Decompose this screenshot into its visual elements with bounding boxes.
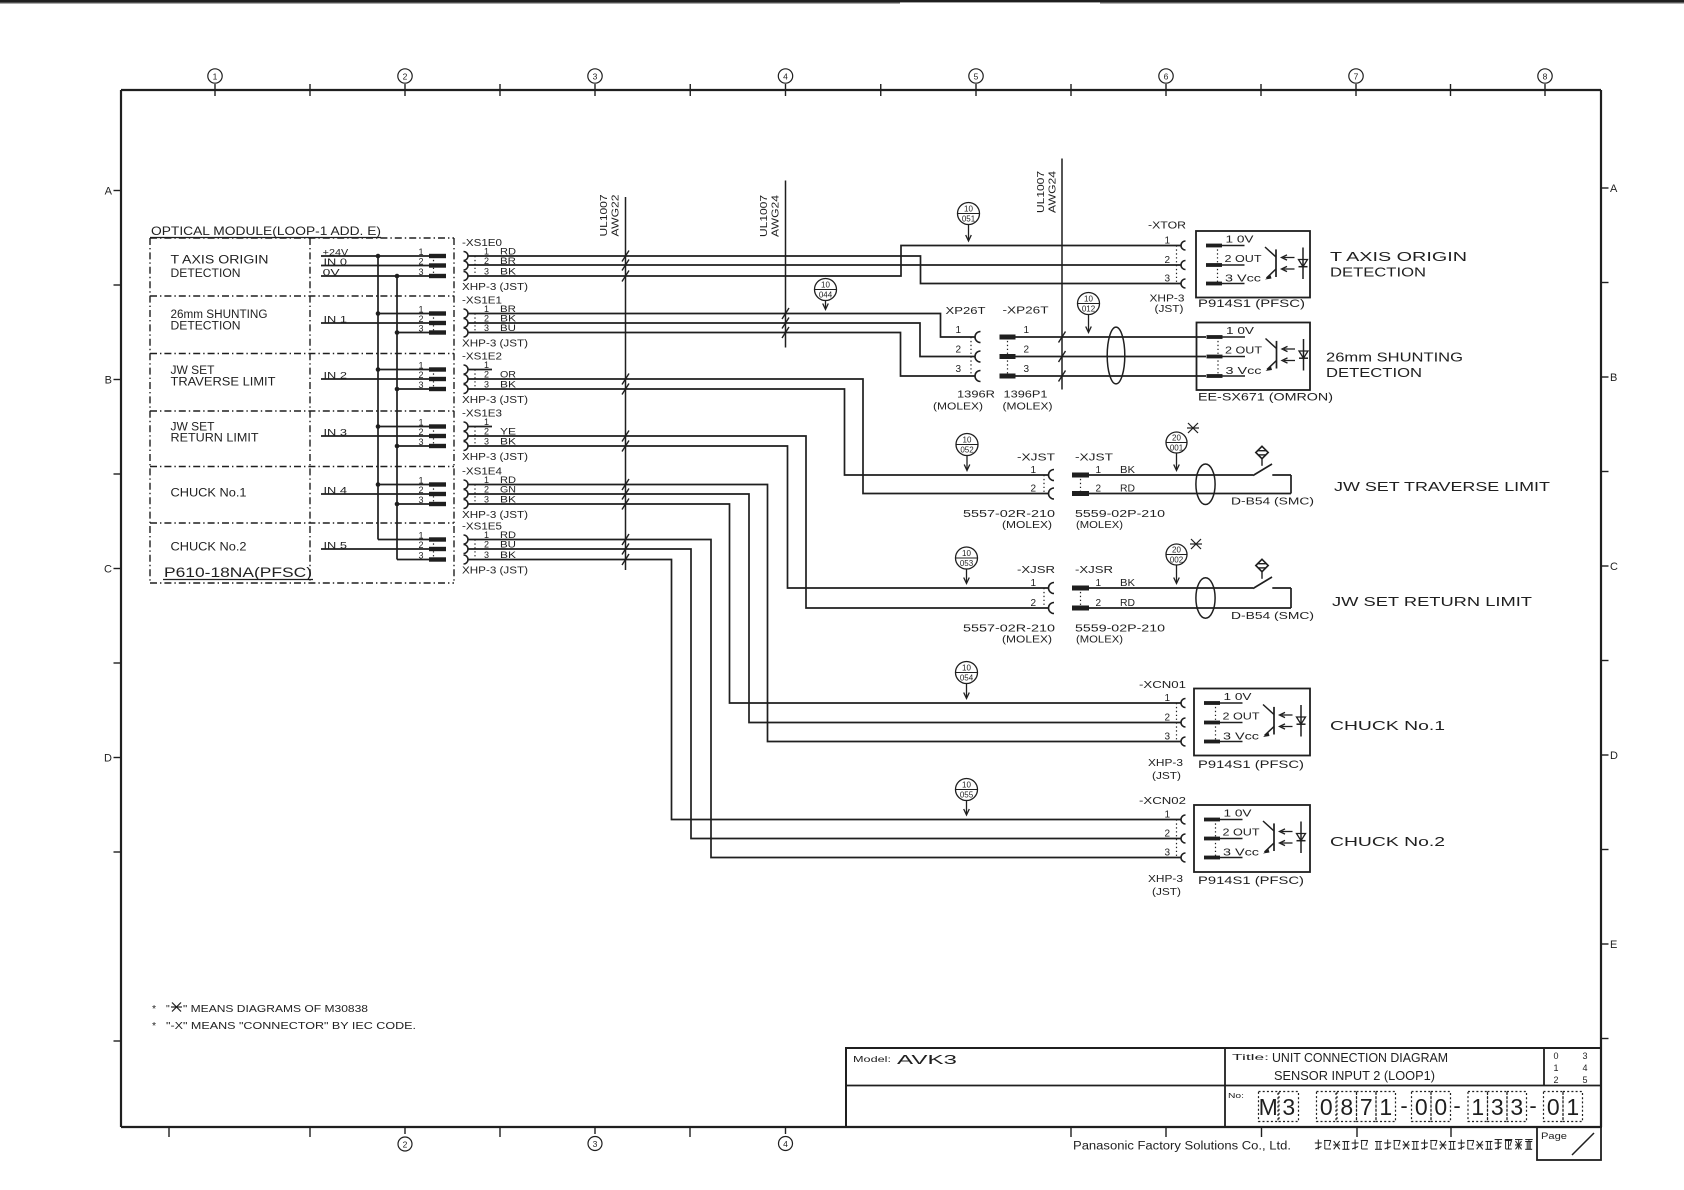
connector -XS1E0 XHP-3(JST) bbox=[462, 238, 528, 293]
optical module title text bbox=[150, 224, 381, 238]
svg-text:10: 10 bbox=[821, 281, 830, 290]
svg-text:7: 7 bbox=[1360, 1094, 1373, 1120]
signal label IN 1 bbox=[324, 315, 348, 326]
drawing border frame bbox=[121, 90, 1601, 1127]
svg-text:-: - bbox=[1529, 1093, 1536, 1118]
wire -XS1E3 pin2 YE to -XJSR pin2 bbox=[468, 436, 1049, 608]
svg-text:1: 1 bbox=[484, 360, 489, 370]
svg-text:5559-02P-210: 5559-02P-210 bbox=[1075, 624, 1166, 635]
svg-text:JW SET TRAVERSE LIMIT: JW SET TRAVERSE LIMIT bbox=[1334, 480, 1551, 494]
svg-text:2: 2 bbox=[484, 370, 489, 380]
svg-text:-XJST: -XJST bbox=[1075, 453, 1113, 464]
svg-text:(JST): (JST) bbox=[1152, 887, 1181, 898]
junction dots 0V bus bbox=[395, 274, 400, 507]
wire -XS1E1 pin2 BK to XP26T pin2 bbox=[468, 323, 975, 357]
svg-text:"-X" MEANS "CONNECTOR" BY IEC: "-X" MEANS "CONNECTOR" BY IEC CODE. bbox=[166, 1020, 416, 1032]
row marker C (right) bbox=[1601, 561, 1618, 573]
text JW SET RETURN LIMIT bbox=[1332, 595, 1533, 609]
svg-text:3: 3 bbox=[1510, 1094, 1523, 1120]
svg-text:P914S1 (PFSC): P914S1 (PFSC) bbox=[1198, 759, 1304, 771]
svg-text:XHP-3 (JST): XHP-3 (JST) bbox=[462, 339, 528, 350]
svg-text:2: 2 bbox=[484, 427, 489, 437]
row marker C (left) bbox=[104, 564, 121, 576]
column marker 5 (top) bbox=[969, 69, 983, 96]
svg-text:2: 2 bbox=[403, 72, 408, 82]
module +24V distribution wire bbox=[377, 256, 379, 540]
column marker 1 (top) bbox=[208, 69, 222, 96]
svg-text:1: 1 bbox=[1164, 810, 1170, 821]
svg-text:044: 044 bbox=[819, 291, 833, 300]
connector -XS1E3 XHP-3(JST) bbox=[462, 409, 528, 464]
text CHUCK No.2 bbox=[1330, 835, 1445, 849]
svg-text:3: 3 bbox=[1164, 274, 1170, 285]
svg-text:2: 2 bbox=[418, 370, 423, 380]
svg-text:3: 3 bbox=[593, 1139, 598, 1149]
cable sheath oval (26mm shunting) bbox=[1107, 327, 1125, 384]
wire -XS1E4 pin3 BK to -XCN01 pin1 bbox=[468, 504, 1181, 703]
svg-text:AWG24: AWG24 bbox=[1048, 170, 1059, 213]
limit switch D-B54(SMC) XJSR bbox=[1231, 559, 1314, 622]
svg-text:1: 1 bbox=[418, 361, 423, 371]
column marker 4 (top) bbox=[778, 69, 792, 96]
svg-text:CHUCK No.2: CHUCK No.2 bbox=[171, 542, 247, 554]
cable ref 10/044 bbox=[815, 279, 837, 310]
svg-text:3 Vcc: 3 Vcc bbox=[1223, 848, 1259, 859]
svg-text:EE-SX671 (OMRON): EE-SX671 (OMRON) bbox=[1198, 392, 1333, 404]
wire -XS1E4 pin2 GN to -XCN01 pin2 bbox=[468, 494, 1181, 723]
svg-text:-XS1E1: -XS1E1 bbox=[462, 296, 503, 307]
connector -XS1E1 XHP-3(JST) bbox=[462, 296, 528, 350]
svg-text:D: D bbox=[104, 753, 112, 765]
svg-text:051: 051 bbox=[962, 215, 976, 224]
svg-text:1: 1 bbox=[1023, 325, 1029, 336]
bottom border ticks bbox=[169, 1127, 1451, 1137]
svg-text:3: 3 bbox=[418, 437, 423, 447]
svg-text:2: 2 bbox=[955, 345, 961, 356]
svg-text:1: 1 bbox=[1566, 1094, 1579, 1120]
cable ref 10/052 bbox=[956, 434, 978, 471]
svg-text:3: 3 bbox=[593, 72, 598, 82]
module row 1 header pins (1,2,3) with pin wires bbox=[321, 305, 446, 335]
connector -XJSR 5557-02R-210(MOLEX) bbox=[963, 565, 1056, 646]
left border half ticks bbox=[114, 285, 122, 1041]
svg-text:-XS1E0: -XS1E0 bbox=[462, 238, 503, 249]
svg-text:-XS1E5: -XS1E5 bbox=[462, 522, 503, 533]
signal label IN 5 bbox=[324, 541, 348, 552]
cable ref 10/051 bbox=[958, 203, 980, 242]
module 0V distribution wire bbox=[396, 276, 398, 560]
wire -XS1E1 pin3 BU to XP26T pin3 bbox=[468, 333, 975, 377]
cable ref 20/001 with kome mark bbox=[1166, 423, 1199, 471]
svg-text:DETECTION: DETECTION bbox=[1326, 366, 1422, 380]
svg-text:3: 3 bbox=[418, 324, 423, 334]
svg-text:0: 0 bbox=[1553, 1051, 1558, 1061]
svg-text:OPTICAL MODULE(LOOP-1 ADD. E): OPTICAL MODULE(LOOP-1 ADD. E) bbox=[151, 224, 381, 238]
cable sheath oval (XJST) bbox=[1196, 464, 1215, 505]
svg-text:1396P1: 1396P1 bbox=[1004, 390, 1049, 401]
svg-text:(MOLEX): (MOLEX) bbox=[933, 402, 983, 413]
svg-text:2: 2 bbox=[1164, 255, 1170, 266]
column marker 2 (top) bbox=[398, 69, 412, 96]
svg-text:0: 0 bbox=[1415, 1094, 1428, 1120]
svg-text:2: 2 bbox=[1030, 484, 1036, 495]
svg-text:JW SET RETURN LIMIT: JW SET RETURN LIMIT bbox=[1332, 595, 1533, 609]
svg-text:2: 2 bbox=[418, 257, 423, 267]
column marker 4 (bottom) bbox=[779, 1137, 793, 1151]
connector -XTOR XHP-3(JST) bbox=[1148, 221, 1186, 316]
connector -XS1E2 XHP-3(JST) bbox=[462, 352, 528, 407]
wire -XS1E2 pin2 OR to -XJST pin2 bbox=[468, 379, 1049, 494]
svg-text:1: 1 bbox=[484, 304, 489, 314]
svg-text:(JST): (JST) bbox=[1152, 771, 1181, 782]
cable bundle line UL1007 AWG24 (left) bbox=[759, 181, 786, 348]
svg-text:2 OUT: 2 OUT bbox=[1225, 254, 1262, 265]
connector -XJST 5559-02P-210(MOLEX) bbox=[1072, 453, 1166, 532]
svg-text:2: 2 bbox=[1030, 598, 1036, 609]
svg-text:Title:: Title: bbox=[1232, 1052, 1269, 1062]
svg-text:4: 4 bbox=[783, 72, 788, 82]
svg-text:1: 1 bbox=[484, 475, 489, 485]
svg-text:(MOLEX): (MOLEX) bbox=[1076, 635, 1123, 646]
cable ref 20/002 with kome mark bbox=[1166, 539, 1202, 584]
svg-text:JW SET: JW SET bbox=[171, 365, 215, 377]
note about kome mark bbox=[152, 1003, 368, 1016]
svg-text:XHP-3: XHP-3 bbox=[1148, 874, 1184, 885]
module row 3 header pins (1,2,3) with pin wires bbox=[321, 418, 446, 449]
svg-text:2: 2 bbox=[484, 314, 489, 324]
title block title cell bbox=[1232, 1051, 1448, 1083]
svg-text:1 0V: 1 0V bbox=[1224, 692, 1252, 703]
svg-text:T AXIS ORIGIN: T AXIS ORIGIN bbox=[171, 255, 269, 267]
wires -XJSR to limit switch bbox=[1089, 588, 1291, 608]
svg-text:P914S1 (PFSC): P914S1 (PFSC) bbox=[1198, 298, 1305, 310]
wire -XS1E4 pin1 RD to -XCN01 pin3 bbox=[468, 485, 1181, 742]
svg-text:052: 052 bbox=[960, 446, 974, 455]
wires -XP26T to EE-SX671 bbox=[1016, 337, 1207, 376]
wire -XS1E1 pin1 BR to XP26T pin1 bbox=[468, 314, 975, 338]
svg-text:-XP26T: -XP26T bbox=[1003, 305, 1050, 317]
optical module row separators bbox=[150, 296, 454, 523]
svg-text:XHP-3: XHP-3 bbox=[1148, 758, 1184, 769]
svg-text:1: 1 bbox=[1553, 1063, 1558, 1073]
svg-text:DETECTION: DETECTION bbox=[1330, 266, 1426, 280]
svg-text:5: 5 bbox=[974, 72, 979, 82]
junction dots +24V bus bbox=[376, 254, 381, 487]
row marker E (right) bbox=[1601, 939, 1617, 951]
svg-text:2: 2 bbox=[418, 485, 423, 495]
svg-text:3 Vcc: 3 Vcc bbox=[1226, 366, 1262, 377]
svg-text:Model:: Model: bbox=[853, 1054, 891, 1064]
svg-text:3 Vcc: 3 Vcc bbox=[1225, 274, 1261, 285]
optical module internal divider bbox=[309, 238, 311, 583]
svg-text:Panasonic Factory Solutions Co: Panasonic Factory Solutions Co., Ltd. bbox=[1073, 1141, 1291, 1153]
svg-text:2: 2 bbox=[484, 485, 489, 495]
svg-text:-XS1E4: -XS1E4 bbox=[462, 467, 503, 478]
svg-text:XHP-3 (JST): XHP-3 (JST) bbox=[462, 452, 528, 463]
svg-text:1: 1 bbox=[484, 417, 489, 427]
svg-text:3: 3 bbox=[1582, 1051, 1587, 1061]
svg-text:XHP-3 (JST): XHP-3 (JST) bbox=[462, 566, 528, 577]
svg-text:1 0V: 1 0V bbox=[1224, 809, 1252, 820]
svg-text:-: - bbox=[1400, 1093, 1407, 1118]
text 26mm SHUNTING DETECTION bbox=[1326, 351, 1463, 381]
svg-text:T AXIS ORIGIN: T AXIS ORIGIN bbox=[1330, 250, 1467, 264]
sensor P914S1 (chuck No.2) bbox=[1194, 805, 1310, 887]
cable bundle line UL1007 AWG22 bbox=[599, 194, 626, 570]
svg-text:-XTOR: -XTOR bbox=[1148, 221, 1186, 232]
right border half ticks bbox=[1601, 283, 1609, 1039]
svg-text:No:: No: bbox=[1228, 1091, 1244, 1100]
svg-text:1: 1 bbox=[484, 247, 489, 257]
svg-text:10: 10 bbox=[963, 436, 972, 445]
svg-text:5557-02R-210: 5557-02R-210 bbox=[963, 624, 1056, 635]
wire-group slashes on AWG24 bundle (right) bbox=[1059, 332, 1066, 382]
svg-text:XHP-3 (JST): XHP-3 (JST) bbox=[462, 395, 528, 406]
svg-text:A: A bbox=[1610, 183, 1618, 195]
svg-text:CHUCK No.1: CHUCK No.1 bbox=[1330, 719, 1445, 733]
row marker D (right) bbox=[1601, 750, 1618, 762]
svg-text:3: 3 bbox=[1282, 1094, 1295, 1120]
svg-text:A: A bbox=[105, 186, 113, 198]
svg-text:XHP-3: XHP-3 bbox=[1150, 294, 1186, 305]
svg-text:-: - bbox=[1453, 1093, 1460, 1118]
wire -XS1E0 pin3 BK to -XTOR pin1 bbox=[468, 246, 1181, 277]
company name japanese bbox=[1315, 1140, 1533, 1150]
wire -XS1E5 pin3 BK to -XCN02 pin1 bbox=[468, 560, 1181, 820]
svg-text:1: 1 bbox=[1030, 465, 1036, 476]
svg-text:Page: Page bbox=[1541, 1131, 1567, 1142]
svg-text:AWG22: AWG22 bbox=[611, 194, 622, 237]
svg-text:1: 1 bbox=[418, 247, 423, 257]
svg-text:DETECTION: DETECTION bbox=[171, 268, 241, 280]
svg-text:*: * bbox=[152, 1003, 156, 1015]
svg-text:26mm SHUNTING: 26mm SHUNTING bbox=[1326, 351, 1463, 365]
svg-text:-XJST: -XJST bbox=[1017, 453, 1055, 464]
svg-text:2: 2 bbox=[1164, 829, 1170, 840]
svg-text:": " bbox=[166, 1003, 170, 1015]
svg-text:3: 3 bbox=[484, 323, 489, 333]
svg-text:2 OUT: 2 OUT bbox=[1225, 346, 1262, 357]
svg-text:3: 3 bbox=[484, 380, 489, 390]
column marker 3 (top) bbox=[588, 69, 602, 96]
svg-text:1: 1 bbox=[1379, 1094, 1392, 1120]
svg-text:3: 3 bbox=[484, 495, 489, 505]
svg-text:(MOLEX): (MOLEX) bbox=[1002, 635, 1052, 646]
svg-text:1: 1 bbox=[1164, 236, 1170, 247]
wire -XS1E0 pin2 BR to -XTOR pin2 bbox=[468, 264, 1181, 266]
svg-text:-XS1E3: -XS1E3 bbox=[462, 409, 503, 420]
svg-text:2: 2 bbox=[484, 540, 489, 550]
svg-text:D-B54 (SMC): D-B54 (SMC) bbox=[1231, 496, 1314, 508]
signal label +24V bbox=[323, 248, 349, 259]
stub wire -XS1E3 pin1 bbox=[468, 426, 492, 428]
svg-text:4: 4 bbox=[1582, 1063, 1587, 1073]
text T AXIS ORIGIN DETECTION bbox=[1330, 250, 1467, 280]
row marker A (left) bbox=[105, 186, 121, 198]
svg-text:" MEANS DIAGRAMS OF M30838: " MEANS DIAGRAMS OF M30838 bbox=[183, 1003, 368, 1015]
svg-text:-XCN01: -XCN01 bbox=[1139, 680, 1187, 691]
svg-text:10: 10 bbox=[962, 664, 971, 673]
svg-text:5557-02R-210: 5557-02R-210 bbox=[963, 509, 1056, 520]
svg-text:UL1007: UL1007 bbox=[1036, 170, 1047, 213]
company name Panasonic Factory Solutions bbox=[1073, 1141, 1291, 1153]
svg-text:2 OUT: 2 OUT bbox=[1223, 712, 1260, 723]
module channel label: CHUCK No.2 bbox=[171, 542, 247, 554]
svg-text:1396R: 1396R bbox=[957, 390, 995, 401]
svg-text:3: 3 bbox=[484, 437, 489, 447]
svg-text:20: 20 bbox=[1172, 434, 1181, 443]
svg-text:*: * bbox=[152, 1020, 156, 1032]
cable ref 10/054 bbox=[956, 662, 978, 699]
svg-text:8: 8 bbox=[1340, 1094, 1353, 1120]
stub wire -XS1E2 pin1 bbox=[468, 369, 492, 371]
svg-text:2: 2 bbox=[1023, 345, 1029, 356]
column marker 3 (bottom) bbox=[588, 1137, 602, 1151]
connector XP26T 1396R(MOLEX) bbox=[933, 305, 995, 413]
svg-text:0: 0 bbox=[1434, 1094, 1447, 1120]
cable ref 10/012 bbox=[1078, 293, 1100, 333]
row marker A (right) bbox=[1601, 183, 1618, 195]
wires -XJST to limit switch bbox=[1089, 475, 1291, 494]
optical module P610-18NA(PFSC) outline box bbox=[150, 238, 454, 583]
svg-text:2: 2 bbox=[403, 1140, 408, 1150]
svg-text:UNIT CONNECTION DIAGRAM: UNIT CONNECTION DIAGRAM bbox=[1272, 1051, 1448, 1065]
svg-text:3: 3 bbox=[1023, 364, 1029, 375]
page cell bbox=[1537, 1127, 1601, 1160]
title block frame bbox=[846, 1048, 1601, 1127]
cable ref 10/053 bbox=[956, 547, 978, 584]
module row 4 header pins (1,2,3) with pin wires bbox=[321, 476, 446, 507]
svg-text:D-B54 (SMC): D-B54 (SMC) bbox=[1231, 610, 1314, 622]
svg-text:2: 2 bbox=[1553, 1075, 1558, 1085]
row marker D (left) bbox=[104, 753, 121, 765]
svg-text:3: 3 bbox=[1164, 732, 1170, 743]
wire -XS1E5 pin1 RD to -XCN02 pin3 bbox=[468, 540, 1181, 858]
sensor P914S1 (T axis origin detection) bbox=[1196, 231, 1310, 310]
svg-text:054: 054 bbox=[960, 674, 974, 683]
svg-text:CHUCK No.1: CHUCK No.1 bbox=[171, 488, 247, 500]
svg-text:001: 001 bbox=[1170, 444, 1184, 453]
svg-text:10: 10 bbox=[1084, 295, 1093, 304]
svg-text:1 0V: 1 0V bbox=[1226, 235, 1254, 246]
row marker B (right) bbox=[1601, 372, 1617, 384]
svg-text:M: M bbox=[1259, 1094, 1278, 1120]
column marker 8 (top) bbox=[1538, 69, 1552, 96]
svg-text:TRAVERSE LIMIT: TRAVERSE LIMIT bbox=[171, 377, 276, 389]
svg-text:XHP-3 (JST): XHP-3 (JST) bbox=[462, 510, 528, 521]
svg-text:3 Vcc: 3 Vcc bbox=[1223, 732, 1259, 743]
svg-text:-XCN02: -XCN02 bbox=[1139, 796, 1187, 807]
svg-text:0: 0 bbox=[1320, 1094, 1333, 1120]
signal label 0V bbox=[323, 268, 341, 279]
svg-text:1: 1 bbox=[418, 305, 423, 315]
svg-text:7: 7 bbox=[1354, 72, 1359, 82]
svg-text:(MOLEX): (MOLEX) bbox=[1002, 520, 1052, 531]
note about -X connector naming bbox=[152, 1020, 416, 1032]
svg-text:8: 8 bbox=[1543, 72, 1548, 82]
svg-text:3: 3 bbox=[1491, 1094, 1504, 1120]
connector -XS1E5 XHP-3(JST) bbox=[462, 522, 528, 577]
svg-text:10: 10 bbox=[962, 781, 971, 790]
svg-text:6: 6 bbox=[1164, 72, 1169, 82]
svg-text:B: B bbox=[105, 375, 112, 387]
svg-text:E: E bbox=[1610, 939, 1617, 951]
svg-text:DETECTION: DETECTION bbox=[171, 321, 241, 333]
svg-text:2: 2 bbox=[418, 427, 423, 437]
svg-text:5: 5 bbox=[1582, 1075, 1587, 1085]
title block model cell bbox=[853, 1052, 957, 1067]
svg-text:1: 1 bbox=[1471, 1094, 1484, 1120]
connector -XP26T 1396P1(MOLEX) bbox=[1000, 305, 1053, 413]
svg-text:3: 3 bbox=[955, 364, 961, 375]
cable sheath oval (XJSR) bbox=[1196, 578, 1215, 619]
svg-text:P914S1 (PFSC): P914S1 (PFSC) bbox=[1198, 875, 1304, 887]
svg-text:26mm SHUNTING: 26mm SHUNTING bbox=[171, 309, 268, 321]
svg-text:UL1007: UL1007 bbox=[599, 194, 610, 237]
connector -XS1E4 XHP-3(JST) bbox=[462, 467, 528, 522]
wire-group slashes on AWG22 bundle bbox=[622, 251, 629, 566]
svg-text:1: 1 bbox=[418, 531, 423, 541]
svg-text:1: 1 bbox=[418, 476, 423, 486]
svg-text:2: 2 bbox=[418, 540, 423, 550]
module row 2 header pins (1,2,3) with pin wires bbox=[321, 361, 446, 392]
svg-text:3: 3 bbox=[418, 267, 423, 277]
svg-text:3: 3 bbox=[418, 551, 423, 561]
svg-text:10: 10 bbox=[964, 205, 973, 214]
svg-text:3: 3 bbox=[418, 495, 423, 505]
cable ref 10/055 bbox=[956, 779, 978, 816]
signal label IN 0 bbox=[324, 257, 348, 268]
svg-text:002: 002 bbox=[1170, 556, 1184, 565]
scan edge artifact (top black strip) bbox=[0, 0, 1684, 4]
svg-text:3: 3 bbox=[1164, 848, 1170, 859]
svg-text:AWG24: AWG24 bbox=[771, 194, 782, 237]
title block revision grid bbox=[1553, 1051, 1587, 1085]
svg-text:RETURN LIMIT: RETURN LIMIT bbox=[171, 433, 259, 445]
svg-text:XP26T: XP26T bbox=[946, 305, 987, 317]
module row 5 header pins (1,2,3) with pin wires bbox=[321, 531, 446, 562]
text JW SET TRAVERSE LIMIT bbox=[1334, 480, 1551, 494]
wire -XS1E0 pin1 RD to -XTOR pin3 bbox=[468, 256, 1181, 284]
cable bundle line UL1007 AWG24 (right) bbox=[1036, 159, 1062, 390]
svg-text:CHUCK No.2: CHUCK No.2 bbox=[1330, 835, 1445, 849]
svg-text:XHP-3 (JST): XHP-3 (JST) bbox=[462, 282, 528, 293]
wire -XS1E5 pin2 BU to -XCN02 pin2 bbox=[468, 549, 1181, 839]
svg-text:P610-18NA(PFSC): P610-18NA(PFSC) bbox=[164, 564, 312, 580]
module channel label: JW SET TRAVERSE LIMIT bbox=[171, 365, 276, 389]
connector -XCN01 XHP-3(JST) bbox=[1139, 680, 1187, 782]
module channel label: CHUCK No.1 bbox=[171, 488, 247, 500]
module channel label: JW SET RETURN LIMIT bbox=[171, 422, 259, 445]
svg-text:1 0V: 1 0V bbox=[1226, 326, 1254, 337]
svg-text:1: 1 bbox=[418, 418, 423, 428]
svg-text:-XJSR: -XJSR bbox=[1017, 565, 1055, 576]
svg-text:D: D bbox=[1610, 750, 1618, 762]
svg-text:1: 1 bbox=[1030, 578, 1036, 589]
svg-text:B: B bbox=[1610, 372, 1617, 384]
svg-text:4: 4 bbox=[783, 1139, 788, 1149]
svg-text:3: 3 bbox=[484, 550, 489, 560]
svg-text:3: 3 bbox=[484, 267, 489, 277]
svg-text:(JST): (JST) bbox=[1155, 304, 1184, 315]
svg-text:2 OUT: 2 OUT bbox=[1223, 828, 1260, 839]
title block drawing number M3 0871-00-133-01 bbox=[1228, 1091, 1583, 1122]
svg-text:10: 10 bbox=[962, 549, 971, 558]
svg-text:20: 20 bbox=[1172, 546, 1181, 555]
signal label IN 2 bbox=[324, 371, 348, 382]
svg-text:SENSOR INPUT 2 (LOOP1): SENSOR INPUT 2 (LOOP1) bbox=[1274, 1069, 1435, 1083]
signal label IN 4 bbox=[324, 486, 348, 497]
